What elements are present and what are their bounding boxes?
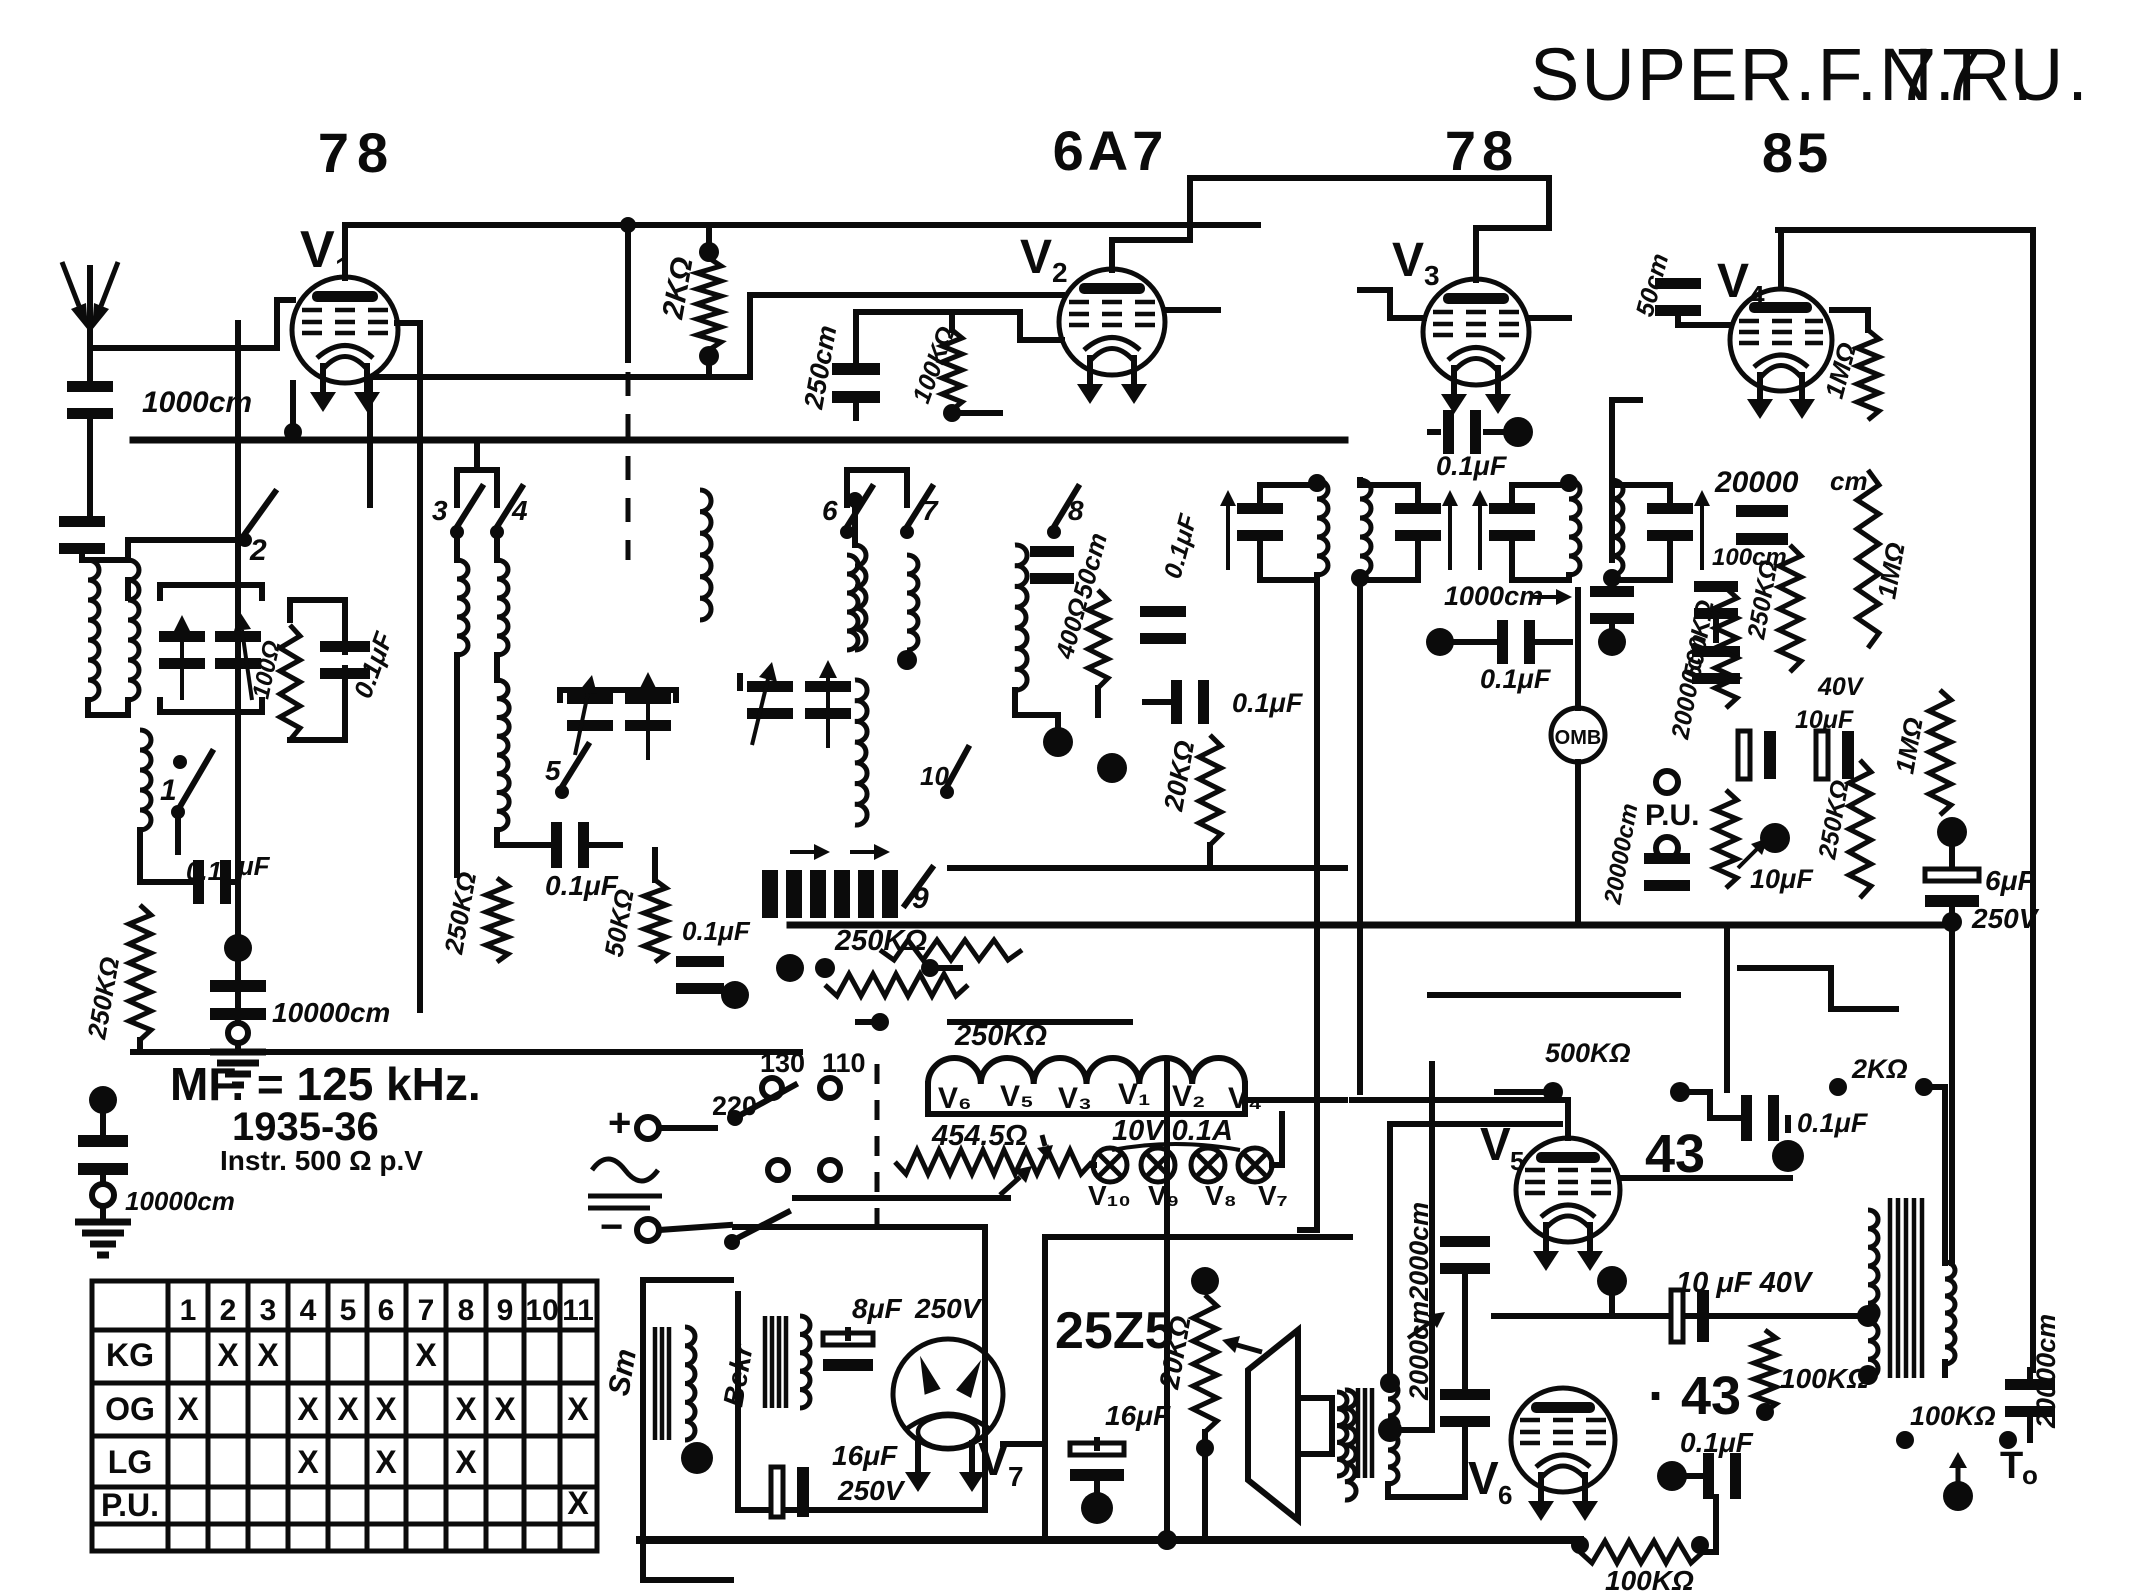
svg-text:100KΩ: 100KΩ: [1605, 1565, 1694, 1595]
switch 1 dot a: [171, 805, 185, 819]
tube V1: [292, 277, 398, 383]
wire 1M top: [1832, 310, 1868, 330]
svg-text:0.1μF: 0.1μF: [1436, 451, 1508, 481]
svg-text:500KΩ: 500KΩ: [1545, 1038, 1631, 1068]
resistor 100K bias: [1580, 1541, 1703, 1563]
wire drv sec bottom: [1388, 1484, 1465, 1497]
wire OMB down: [1575, 762, 1581, 920]
node drv pri top: [1380, 1373, 1400, 1393]
wire IF T2 bot left: [1512, 544, 1569, 580]
wire drop x628: [625, 225, 631, 360]
wire OMB up: [1575, 590, 1581, 708]
wire IF1 down b: [1357, 578, 1363, 1092]
node 100K out: [1756, 1403, 1774, 1421]
wire ant2: [100, 1100, 106, 1135]
capacitor padder a: [747, 681, 793, 692]
wire 50K top: [652, 850, 658, 880]
wire V3k: [1430, 429, 1438, 435]
node big left: [224, 934, 252, 962]
wire pot bottom: [1202, 1432, 1208, 1540]
svg-text:3: 3: [260, 1294, 277, 1327]
svg-text:6: 6: [1498, 1480, 1512, 1510]
node IF T2 bot: [1603, 569, 1621, 587]
svg-text:6μF: 6μF: [1985, 865, 2035, 896]
capacitor IF T2 right: [1647, 503, 1693, 514]
terminal plus: [637, 1117, 659, 1139]
wire gang bottom: [160, 700, 262, 712]
switch 1 dot b: [173, 755, 187, 769]
resistor 20K: [1199, 735, 1221, 845]
svg-text:LG: LG: [108, 1444, 152, 1480]
wire V1 plate right: [397, 323, 420, 360]
svg-text:X: X: [455, 1391, 477, 1427]
wire 100K net: [856, 312, 952, 330]
wire v6 k line: [1462, 1494, 1468, 1500]
wire drop x628 dashed: [626, 372, 631, 560]
svg-text:2KΩ: 2KΩ: [1851, 1054, 1908, 1084]
wire 6uF down: [1949, 902, 1955, 1263]
capacitor 8uF: [823, 1333, 873, 1345]
switch 10 dot: [940, 785, 954, 799]
wire v5 line x1510: [1507, 1152, 1513, 1158]
svg-text:X: X: [337, 1391, 359, 1427]
svg-text:OG: OG: [105, 1391, 155, 1427]
svg-text:7: 7: [1008, 1461, 1024, 1492]
svg-text:40V: 40V: [1817, 673, 1865, 701]
svg-text:· 43: · 43: [1648, 1366, 1741, 1426]
svg-text:V₇: V₇: [1258, 1180, 1288, 1211]
wire V3 plate: [1528, 315, 1569, 321]
tube V6 filament arrow right: [1582, 1472, 1588, 1501]
coil osc section: [140, 730, 151, 830]
arrow padder b: [826, 678, 830, 748]
wire sw10: [944, 732, 950, 738]
wire V5 k: [1609, 1281, 1615, 1316]
magic eye OMB: [1551, 708, 1605, 762]
node V5 k: [1597, 1266, 1627, 1296]
resistor 250K rf: [486, 878, 508, 962]
wire v6 bottom: [1560, 1489, 1566, 1495]
terminal PU top: [1656, 771, 1678, 793]
speaker: [1248, 1330, 1298, 1520]
svg-text:16μF: 16μF: [832, 1440, 898, 1471]
coil antenna primary: [88, 560, 99, 700]
coil osc grid: [700, 490, 711, 620]
node out pri bot: [1858, 1365, 1878, 1385]
ground symbol left: [210, 1049, 266, 1056]
wire V3 top rail: [1219, 175, 1549, 181]
arrow IF T1 left: [1226, 506, 1230, 570]
tube V2 filament arrow left: [1087, 355, 1093, 384]
svg-text:X: X: [455, 1444, 477, 1480]
wire V4 topcap: [1778, 230, 1784, 288]
svg-text:100KΩ: 100KΩ: [1780, 1363, 1869, 1394]
svg-text:7: 7: [418, 1294, 435, 1327]
wire 2K af right: [1924, 1087, 1945, 1263]
svg-text:X: X: [494, 1391, 516, 1427]
svg-text:454.5Ω: 454.5Ω: [931, 1120, 1028, 1152]
wire Sm top: [682, 1324, 688, 1330]
node 2K top: [699, 242, 719, 262]
resistor 1M low: [1929, 690, 1951, 815]
coil conv a: [847, 555, 858, 650]
transformer driver primary: [1337, 1392, 1347, 1476]
resistor 100K out: [1754, 1330, 1776, 1412]
node tone l: [1896, 1431, 1914, 1449]
antenna arrow left: [62, 262, 79, 306]
wire 20K bottom: [1207, 845, 1213, 868]
svg-text:7: 7: [922, 495, 939, 526]
wire trimmer out: [765, 889, 771, 895]
wire antenna tap to grid: [90, 300, 277, 348]
node 2K bottom: [699, 346, 719, 366]
lamp V9: [1141, 1148, 1175, 1182]
wire 250K to bus: [137, 1040, 143, 1052]
tube V3 filament arrow right: [1495, 365, 1501, 394]
node 2K af l: [1829, 1078, 1847, 1096]
node 100K bot: [943, 404, 961, 422]
svg-text:V₉: V₉: [1148, 1180, 1179, 1211]
wire v4 grid path: [1612, 400, 1640, 560]
svg-text:6A7: 6A7: [1053, 119, 1168, 182]
wire coil bottom junction: [88, 700, 128, 715]
resistor 1M v4: [1857, 330, 1879, 420]
capacitor 0.1uF det: [1497, 620, 1508, 664]
svg-text:V₆: V₆: [938, 1082, 972, 1115]
wire 50cm link: [1678, 309, 1730, 325]
node drv ct: [1378, 1418, 1402, 1442]
wire 20000 down: [2027, 1414, 2033, 1440]
svg-text:8μF: 8μF: [852, 1293, 902, 1324]
node MB: [1577, 734, 1579, 736]
switch 8 dot: [1047, 525, 1061, 539]
wire out pri bot: [1865, 1372, 1871, 1378]
wire osc cap right: [230, 879, 238, 885]
capacitor 250cm: [832, 363, 880, 375]
svg-text:8: 8: [458, 1294, 475, 1327]
tube V5: [1516, 1138, 1620, 1242]
svg-text:8: 8: [1068, 495, 1084, 526]
resistor 100K osc: [942, 330, 962, 410]
resistor 1M right: [1857, 470, 1879, 648]
svg-text:4: 4: [300, 1294, 317, 1327]
tube V6: [1511, 1388, 1615, 1492]
svg-text:V₅: V₅: [1000, 1080, 1034, 1113]
svg-text:2: 2: [220, 1294, 237, 1327]
resistor 50K: [644, 880, 666, 962]
wire sw4 down: [494, 532, 500, 560]
svg-text:X: X: [257, 1337, 279, 1373]
wire bus y868: [950, 865, 1345, 871]
wire 250cm bot: [853, 395, 859, 418]
lamp V10: [1093, 1148, 1127, 1182]
wire V2 plate rail: [1216, 175, 1222, 181]
coil antenna secondary: [128, 560, 139, 700]
transformer Bekr coil: [800, 1316, 810, 1408]
capacitor 1000cm if: [1590, 586, 1634, 597]
wire af cap drop: [1785, 1118, 1791, 1130]
wire cath net2: [290, 668, 345, 740]
capacitor 10000cm: [210, 980, 266, 992]
capacitor 10uF 40V: [1671, 1290, 1683, 1342]
svg-text:3: 3: [1424, 260, 1440, 291]
svg-text:T: T: [2000, 1445, 2023, 1487]
wire out sec: [1942, 1362, 1948, 1375]
svg-text:X: X: [217, 1337, 239, 1373]
tube V1 filament arrow left: [320, 363, 326, 392]
svg-text:OMB: OMB: [1555, 727, 1602, 749]
svg-text:2: 2: [249, 534, 267, 567]
terminal gnd top: [228, 1023, 248, 1043]
svg-text:250V: 250V: [1971, 903, 2040, 934]
wire 25Z5 drop: [1042, 1237, 1048, 1540]
wire right rail down: [2030, 230, 2036, 1370]
svg-text:V: V: [1717, 255, 1749, 308]
capacitor 0.1uF V3k: [1443, 410, 1454, 454]
wire conv in top: [1012, 542, 1018, 548]
svg-text:KG: KG: [106, 1337, 154, 1373]
wire sg cap: [1145, 699, 1172, 705]
table switch matrix grid: [92, 1281, 597, 1551]
svg-text:0.1μF: 0.1μF: [1480, 664, 1552, 694]
transformer output primary: [1868, 1210, 1878, 1378]
coil IF T1 primary: [1317, 480, 1328, 575]
svg-text:1: 1: [180, 1294, 197, 1327]
capacitor 50cm v4: [1655, 278, 1701, 289]
wire antenna cap to cap2: [87, 412, 93, 520]
tube V3: [1423, 279, 1529, 385]
wire pot wiper: [1259, 1349, 1265, 1355]
wire cath net: [290, 600, 345, 652]
wire det out: [1575, 587, 1581, 593]
wire Sm box bottom: [643, 1577, 731, 1583]
svg-text:5: 5: [1510, 1146, 1524, 1176]
tube V7 arrow left: [915, 1440, 921, 1472]
tube V7 arrow right: [969, 1440, 975, 1472]
svg-text:V: V: [1480, 1118, 1511, 1170]
wire coil a bottom: [454, 655, 460, 875]
wire Sm box: [643, 1280, 731, 1580]
wire bus under v4 b: [1740, 968, 1896, 1009]
wire 250cm net: [856, 312, 1062, 363]
trimmer bank base: [752, 889, 758, 895]
wire IF2 pri drop: [1566, 575, 1572, 581]
node bias l: [1571, 1536, 1589, 1554]
svg-text:V: V: [1468, 1452, 1499, 1504]
node ant2: [89, 1086, 117, 1114]
wire IF T2 bot right: [1612, 544, 1670, 580]
node agc2: [871, 1013, 889, 1031]
wire af cap l: [1680, 1092, 1738, 1118]
capacitor 20000cm out: [2005, 1379, 2055, 1390]
node 500K af r: [1670, 1082, 1690, 1102]
wire 2K bottom: [706, 356, 712, 377]
node V3k: [1503, 417, 1533, 447]
svg-text:1: 1: [160, 774, 177, 807]
capacitor 0.1uF agc: [676, 956, 724, 967]
node tone tap: [1943, 1481, 1973, 1511]
svg-text:10 μF 40V: 10 μF 40V: [1676, 1267, 1814, 1299]
node IF T2 top: [1560, 474, 1578, 492]
svg-text:0.1μF: 0.1μF: [1232, 688, 1304, 718]
node 2K af r: [1915, 1078, 1933, 1096]
arrow padder: [752, 679, 768, 745]
svg-text:78: 78: [1445, 119, 1519, 182]
svg-text:X: X: [567, 1391, 589, 1427]
coil IF T2 secondary: [1612, 480, 1623, 575]
wire bus drop x370: [367, 437, 373, 443]
transformer Sm core: [653, 1327, 658, 1440]
wire v4 cath down: [1759, 534, 1765, 540]
antenna lead-in: [87, 268, 93, 382]
wire bus under v4 a: [1724, 925, 1730, 1090]
wire 1M low top: [1937, 687, 1943, 693]
node IF T1 bot: [1351, 569, 1369, 587]
node 1000cm: [1598, 628, 1626, 656]
capacitor 0.1uF af: [1741, 1095, 1752, 1141]
resistor 2K ohm: [697, 258, 721, 350]
node conv k1: [1043, 727, 1073, 757]
wire agc link: [697, 984, 703, 990]
capacitor tuning gang b: [215, 631, 261, 642]
arrow trimmer 1: [790, 850, 814, 854]
wire gang top: [125, 580, 131, 598]
capacitor antenna series 1: [67, 381, 113, 392]
transformer Bekr core: [763, 1316, 768, 1408]
svg-text:10000cm: 10000cm: [272, 997, 390, 1028]
wire 2000 down: [1462, 1424, 1468, 1497]
tube V2: [1059, 269, 1165, 375]
capacitor 16uF 2: [1070, 1443, 1124, 1455]
wire osc cap left: [140, 830, 194, 882]
switch minus pivot: [724, 1234, 740, 1250]
wire 8uF leads: [845, 1330, 851, 1338]
svg-text:0.1μF: 0.1μF: [682, 916, 751, 946]
svg-text:3: 3: [432, 495, 448, 526]
switch 1 arm: [178, 752, 212, 810]
wire 50cm net: [1675, 259, 1681, 265]
ac sine symbol: [592, 1159, 658, 1181]
node agc mid l2: [815, 958, 835, 978]
wire agc step: [930, 965, 960, 971]
arrow gang2 b: [646, 690, 650, 760]
svg-text:5: 5: [545, 755, 561, 786]
wire rf cap wires: [497, 830, 552, 845]
arrow IF T1 right: [1448, 506, 1452, 570]
svg-text:V₈: V₈: [1205, 1180, 1237, 1211]
wire ant coil join top: [88, 557, 128, 563]
capacitor antenna series 2: [59, 516, 105, 527]
resistor 250K v4: [1779, 545, 1801, 672]
node 0.1uF det left: [1426, 628, 1454, 656]
svg-text:10μF: 10μF: [1750, 864, 1814, 894]
wire bus under v4 c: [1430, 992, 1678, 998]
antenna arrow right: [101, 262, 118, 306]
wire main bus y440: [133, 437, 1345, 444]
svg-text:10: 10: [525, 1294, 558, 1327]
svg-text:X: X: [567, 1485, 589, 1521]
svg-text:9: 9: [497, 1294, 514, 1327]
capacitor tuning gang a: [159, 631, 205, 642]
arrow 2000 link: [1408, 1321, 1432, 1338]
wire IF T1 top left: [1260, 480, 1317, 500]
svg-text:V: V: [1392, 234, 1424, 287]
wire grid hook: [277, 297, 293, 303]
svg-text:6: 6: [822, 495, 838, 526]
svg-text:MF. = 125 kHz.: MF. = 125 kHz.: [170, 1058, 481, 1110]
svg-text:20000: 20000: [1714, 466, 1799, 499]
wire V7 box: [735, 1227, 985, 1510]
node agc mid l: [776, 954, 804, 982]
wire sw34 feed: [474, 440, 480, 470]
switch 2 dot: [238, 533, 252, 547]
capacitor 16uF v7: [771, 1467, 783, 1517]
capacitor IF T1 left: [1237, 503, 1283, 514]
node bias r: [1691, 1536, 1709, 1554]
switch 5 dot: [555, 785, 569, 799]
wire 2000 a up: [1462, 1234, 1468, 1240]
svg-text:V₁: V₁: [1118, 1078, 1150, 1111]
svg-text:P.U.: P.U.: [1645, 799, 1699, 832]
wire gnd2: [100, 1206, 106, 1218]
node 6uF bus: [1942, 912, 1962, 932]
wire v1 cath to bus: [290, 383, 296, 440]
wire gang frame: [160, 585, 262, 598]
terminal PU bottom: [1656, 837, 1678, 859]
wire V7 cath line: [1003, 1441, 1045, 1447]
svg-text:V: V: [978, 1433, 1009, 1485]
wire bias right: [1703, 1497, 1716, 1552]
switch sel pivot: [727, 1110, 743, 1126]
capacitor 6uF: [1925, 869, 1979, 881]
trimmer bank caps: [762, 870, 778, 918]
svg-text:25Z5: 25Z5: [1055, 1302, 1174, 1360]
capacitor ant2: [78, 1135, 128, 1147]
svg-text:1000cm: 1000cm: [1444, 581, 1543, 611]
resistor 20K pot: [1193, 1295, 1217, 1432]
switch 8 arm: [1052, 487, 1078, 530]
wire V3 grid: [1360, 290, 1424, 318]
arrow heater tap2: [1042, 1135, 1045, 1146]
svg-text:V: V: [300, 221, 335, 279]
wire antenna to coil: [79, 547, 85, 560]
capacitor 0.1uF conv: [1140, 606, 1186, 617]
switch 3 arm: [455, 487, 482, 530]
wire choke b join: [494, 655, 500, 680]
wire 2000 wires: [1462, 1270, 1468, 1392]
capacitor 10uF b: [1816, 731, 1828, 779]
resistor 500K low: [1715, 790, 1737, 888]
coil RF choke b: [497, 560, 508, 655]
coil RF choke a: [457, 560, 468, 655]
wire V6 plate: [1612, 1425, 1618, 1431]
svg-text:−: −: [600, 1205, 623, 1249]
wire IF T2 top right: [1612, 480, 1670, 500]
arrow tuning b: [242, 630, 252, 700]
node af: [1772, 1140, 1804, 1172]
wire sel to heater: [795, 1195, 1008, 1201]
svg-text:4: 4: [511, 495, 528, 526]
capacitor gang2 b: [625, 693, 671, 704]
wire bottom bus: [640, 1536, 1580, 1544]
node 16uF2: [1081, 1492, 1113, 1524]
svg-text:78: 78: [318, 121, 396, 184]
arrow IF T2 left: [1478, 506, 1482, 570]
arrow tone wiper: [1956, 1468, 1961, 1490]
capacitor padder b: [805, 681, 851, 692]
switch 6 dot: [840, 525, 854, 539]
capacitor 0.1uF V1 cath: [320, 641, 370, 652]
